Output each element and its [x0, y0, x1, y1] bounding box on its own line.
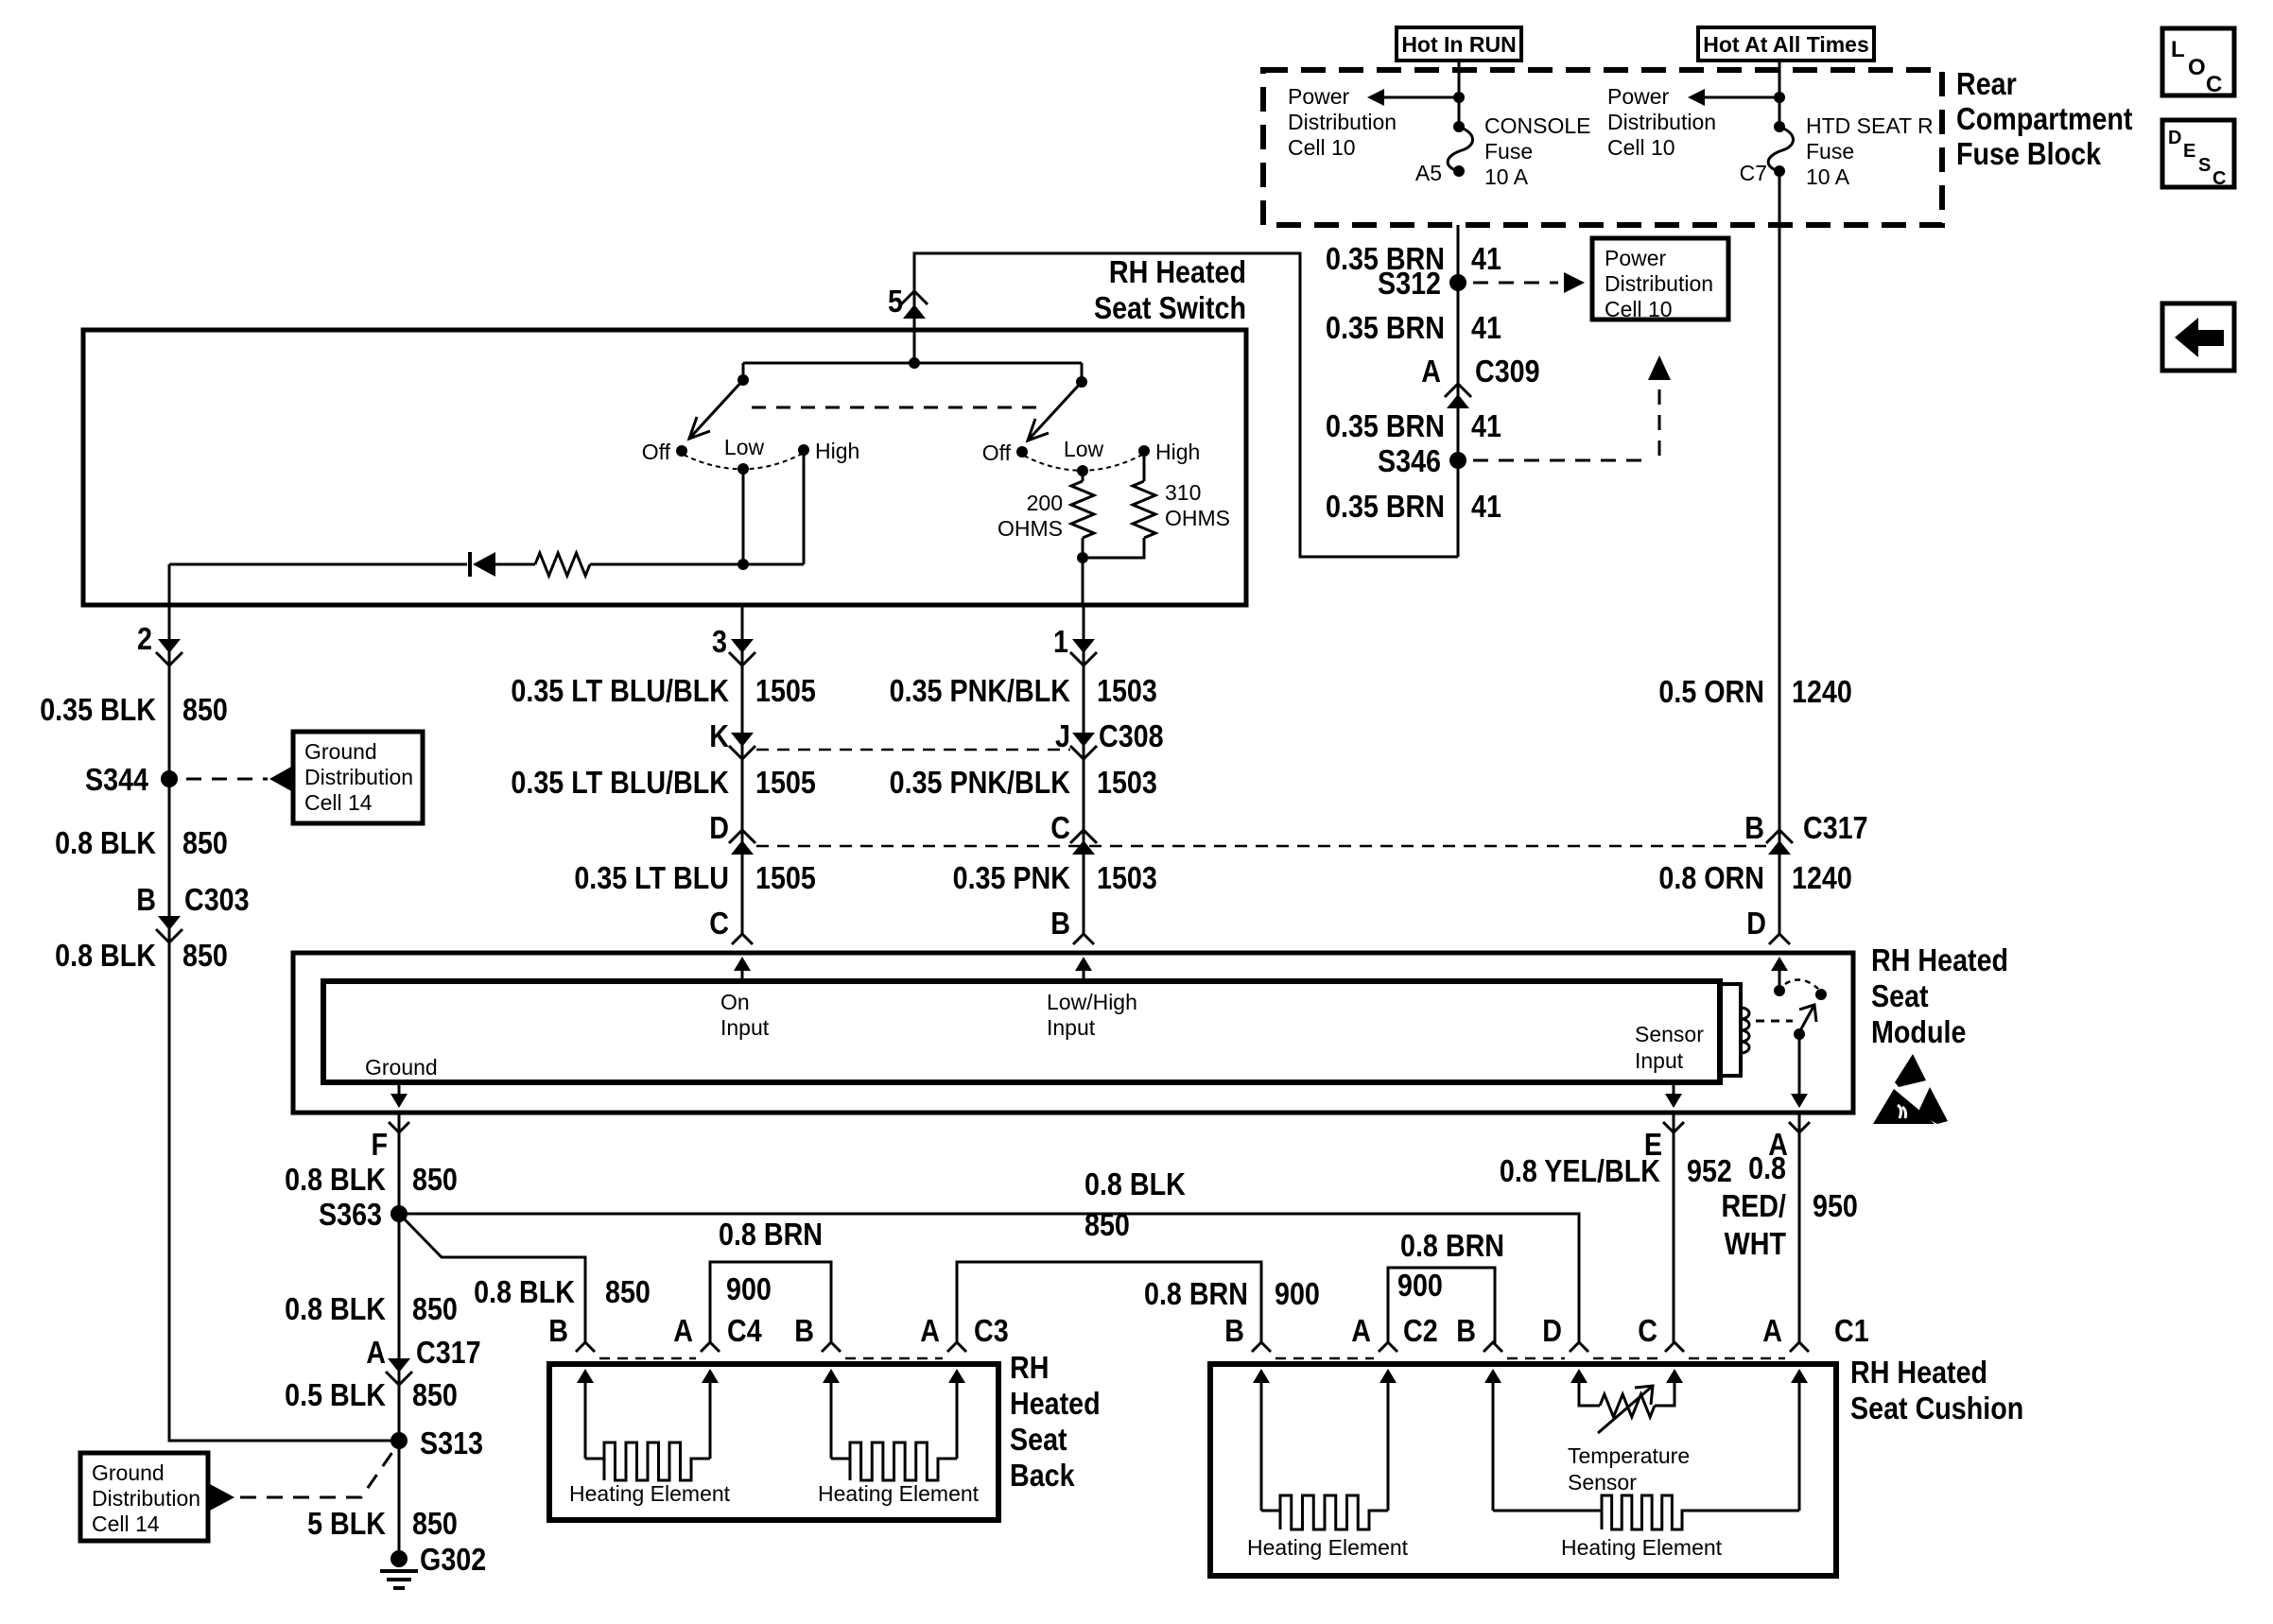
connector C2 pin B: [1224, 1313, 1271, 1352]
svg-text:41: 41: [1471, 408, 1501, 443]
svg-text:CONSOLE: CONSOLE: [1484, 113, 1590, 138]
svg-text:Fuse Block: Fuse Block: [1956, 136, 2102, 171]
ESD warning symbol: [1873, 1054, 1948, 1124]
text: 0.35 PNK 1503 (row3): [953, 860, 1157, 895]
text: 0.8 BRN 900 (bridge 3): [1397, 1228, 1504, 1303]
wire: power distribution arrow (right fuse): [1688, 89, 1779, 106]
svg-text:850: 850: [412, 1506, 458, 1541]
svg-text:850: 850: [412, 1291, 458, 1326]
svg-text:L: L: [2171, 37, 2185, 62]
svg-text:Cell 10: Cell 10: [1607, 135, 1675, 160]
node: switch pivot 1: [737, 374, 749, 386]
text: 0.8 BLK 850 (below S363): [285, 1291, 458, 1326]
svg-text:0.35 LT BLU/BLK: 0.35 LT BLU/BLK: [511, 673, 729, 708]
svg-text:C308: C308: [1099, 718, 1164, 753]
wire: switch feed rail: [743, 330, 1082, 382]
wire: pin 1 / PNK chain: [1083, 605, 1085, 934]
svg-text:0.8 BRN: 0.8 BRN: [1400, 1228, 1504, 1263]
svg-text:Distribution: Distribution: [1288, 110, 1397, 134]
svg-text:Ground: Ground: [304, 739, 377, 764]
svg-text:0.35 PNK: 0.35 PNK: [953, 860, 1071, 895]
connector: switch pin 5: [888, 284, 928, 319]
svg-text:41: 41: [1471, 241, 1501, 276]
svg-text:Module: Module: [1871, 1014, 1966, 1049]
svg-text:Heating Element: Heating Element: [1561, 1535, 1723, 1560]
text: 0.8 ORN 1240: [1658, 860, 1851, 895]
contact High (1): [798, 439, 859, 463]
svg-text:950: 950: [1813, 1188, 1858, 1223]
contact Off (1): [642, 440, 687, 464]
wire: 0.8 BLK 850 long ground bus: [399, 1214, 1579, 1343]
svg-text:Distribution: Distribution: [92, 1486, 200, 1511]
Rear Compartment Fuse Block dashed box: [1263, 70, 1942, 225]
wire: module ground to G302: [398, 1113, 401, 1559]
seat back arrow B(C4): [577, 1369, 594, 1390]
svg-text:41: 41: [1471, 310, 1501, 345]
node: junction pin 1: [1077, 552, 1088, 605]
svg-text:0.8 BRN: 0.8 BRN: [1144, 1276, 1248, 1311]
svg-text:RH Heated: RH Heated: [1109, 254, 1246, 289]
svg-text:Cell 14: Cell 14: [92, 1512, 160, 1536]
connector C317 pin B: [1744, 810, 1867, 855]
svg-text:0.35 PNK/BLK: 0.35 PNK/BLK: [890, 673, 1071, 708]
text: 0.35 BLK 850: [40, 692, 228, 727]
module input arrow: Low/High Input: [1075, 957, 1092, 981]
connector C317 pin A (ground): [366, 1335, 480, 1385]
svg-text:Ground: Ground: [365, 1055, 438, 1080]
label box: Hot At All Times: [1698, 27, 1874, 60]
svg-text:Seat: Seat: [1010, 1422, 1067, 1457]
svg-text:Seat Switch: Seat Switch: [1094, 290, 1246, 325]
label box: Hot In RUN: [1397, 27, 1521, 60]
contact High (2): [1138, 440, 1200, 464]
svg-text:C: C: [709, 906, 729, 941]
connector C317 pin D: [709, 810, 755, 855]
heating element (cushion left): [1261, 1390, 1388, 1529]
svg-text:Power: Power: [1607, 84, 1670, 109]
text: Heating Element (back right): [818, 1481, 980, 1506]
svg-text:Low: Low: [724, 435, 765, 459]
RH Heated Seat Cushion box: [1210, 1364, 1836, 1576]
svg-text:Low/High: Low/High: [1047, 990, 1137, 1014]
dashed mechanical link: [752, 406, 1041, 409]
svg-text:A: A: [920, 1313, 940, 1348]
cushion arrow C(C1): [1666, 1369, 1683, 1390]
connector C308 pin J: [1055, 718, 1164, 759]
text: 0.8 YEL/BLK 952: [1500, 1153, 1732, 1188]
svg-text:D: D: [709, 810, 729, 845]
text: 0.8 BLK 850 (bus label): [1084, 1166, 1186, 1242]
svg-text:900: 900: [726, 1271, 772, 1306]
DESC reference box: [2162, 120, 2234, 189]
svg-text:0.8 BLK: 0.8 BLK: [55, 825, 156, 860]
title: RH Heated Seat Module: [1871, 942, 2008, 1049]
text: On Input: [720, 990, 770, 1040]
text: 0.35 LT BLU/BLK 1505 (row1): [511, 673, 815, 708]
svg-text:1: 1: [1053, 624, 1068, 659]
module ground arrow: [390, 1082, 408, 1108]
svg-text:S344: S344: [85, 762, 149, 797]
connector: module pin F: [371, 1122, 409, 1162]
RH Heated Seat Module inner box: [323, 981, 1720, 1082]
node: junction at HTD SEAT R fuse top: [1774, 92, 1785, 103]
svg-text:On: On: [720, 990, 750, 1014]
svg-text:High: High: [815, 439, 859, 463]
wire: ORN feed chain: [1778, 171, 1781, 934]
connector C1 pin C: [1638, 1313, 1684, 1352]
connector C1 pin B: [1456, 1313, 1502, 1352]
svg-text:C303: C303: [184, 882, 250, 917]
dashed reference arrow to S313: [210, 1448, 395, 1511]
svg-text:Input: Input: [1635, 1048, 1684, 1073]
svg-text:Fuse: Fuse: [1806, 139, 1854, 164]
svg-text:5: 5: [888, 284, 903, 319]
fuse HTD SEAT R 10A: [1768, 121, 1793, 177]
svg-text:C: C: [1638, 1313, 1657, 1348]
svg-text:Distribution: Distribution: [1605, 271, 1713, 296]
svg-text:OHMS: OHMS: [1165, 506, 1230, 530]
svg-text:S313: S313: [420, 1425, 483, 1460]
connector C4 pin B: [548, 1313, 595, 1352]
wire: pin 2 branch with diode and resistor: [169, 564, 743, 605]
dashed reference arrow from S312: [1473, 272, 1585, 293]
svg-text:1505: 1505: [755, 673, 816, 708]
wire: Low contact 1 drop: [742, 469, 745, 564]
svg-text:Heating Element: Heating Element: [569, 1481, 731, 1506]
svg-text:Cell 10: Cell 10: [1605, 297, 1673, 321]
dashed link coil to switch: [1756, 1020, 1793, 1023]
title: RH Heated Seat Cushion: [1850, 1355, 2023, 1425]
wire: 0.8 BRN 900 bridge C3A-C2B: [957, 1262, 1261, 1343]
svg-text:S363: S363: [319, 1197, 382, 1232]
splice S363: [319, 1197, 408, 1232]
svg-text:K: K: [709, 718, 729, 753]
text: Power Distribution Cell 10 (right): [1607, 84, 1716, 160]
splice S313: [390, 1425, 483, 1460]
svg-text:850: 850: [412, 1162, 458, 1197]
svg-text:S: S: [2198, 155, 2211, 176]
text: CONSOLE Fuse 10 A: [1484, 113, 1590, 189]
svg-text:B: B: [136, 882, 156, 917]
node: junction pin 3: [737, 559, 749, 570]
svg-text:10 A: 10 A: [1806, 164, 1850, 189]
svg-text:B: B: [1744, 810, 1764, 845]
dashed wiper arc (2): [1024, 455, 1142, 471]
text: 0.35 BRN 41 (3): [1326, 408, 1501, 443]
back-arrow box: [2162, 303, 2234, 371]
resistor 310 OHMS: [1088, 451, 1155, 558]
connector: module pin A: [1768, 1122, 1810, 1162]
svg-text:1503: 1503: [1097, 860, 1157, 895]
dashed line C3: [845, 1357, 943, 1360]
text: Sensor Input: [1635, 1022, 1704, 1073]
Power Distribution Cell 10 reference box: [1592, 238, 1728, 321]
resistor (switch illumination): [535, 553, 590, 576]
svg-text:RH: RH: [1010, 1350, 1049, 1385]
splice S346: [1378, 443, 1466, 478]
text: 0.35 LT BLU 1505 (row3): [574, 860, 815, 895]
title: RH Heated Seat Switch: [1094, 254, 1246, 325]
svg-text:HTD SEAT R: HTD SEAT R: [1806, 113, 1934, 138]
heating element (cushion right): [1493, 1390, 1799, 1529]
svg-text:C317: C317: [1803, 810, 1868, 845]
svg-text:850: 850: [182, 938, 228, 973]
svg-text:A: A: [366, 1335, 386, 1370]
svg-text:0.8 YEL/BLK: 0.8 YEL/BLK: [1500, 1153, 1661, 1188]
contact Off (2): [982, 441, 1028, 465]
connector: switch pin 3: [712, 624, 755, 665]
svg-text:C: C: [1050, 810, 1070, 845]
wire: 0.8 BRN 900 bridge C4A-C3B: [710, 1262, 831, 1343]
dashed line C2: [1275, 1357, 1374, 1360]
switch lever 2: [1028, 382, 1082, 441]
svg-text:A: A: [673, 1313, 693, 1348]
dashed connector line C317: [756, 845, 1766, 848]
connector: module pin B (Low/High Input): [1050, 906, 1094, 944]
svg-text:B: B: [1224, 1313, 1244, 1348]
dashed line C1: [1507, 1357, 1785, 1360]
cushion arrow B(C1): [1484, 1369, 1501, 1390]
svg-text:Heating Element: Heating Element: [818, 1481, 980, 1506]
text: 0.35 PNK/BLK 1503 (row2): [890, 765, 1157, 800]
module input arrow: On Input: [734, 957, 751, 981]
title: Rear Compartment Fuse Block: [1956, 66, 2132, 171]
svg-text:Off: Off: [642, 440, 671, 464]
svg-text:Heated: Heated: [1010, 1386, 1101, 1421]
svg-text:WHT: WHT: [1725, 1226, 1786, 1261]
svg-text:S346: S346: [1378, 443, 1441, 478]
text: 0.5 ORN 1240: [1658, 674, 1851, 709]
svg-text:0.8 BLK: 0.8 BLK: [1084, 1166, 1186, 1201]
connector: module pin D: [1746, 906, 1790, 944]
svg-text:1505: 1505: [755, 765, 816, 800]
ground G302: [380, 1542, 486, 1588]
svg-text:B: B: [1456, 1313, 1476, 1348]
module internal switch: [1774, 980, 1827, 1040]
text: HTD SEAT R Fuse 10 A: [1806, 113, 1934, 189]
svg-text:850: 850: [1084, 1207, 1130, 1242]
connector C308 pin K: [709, 718, 755, 759]
svg-text:O: O: [2188, 55, 2206, 80]
wire: 0.8 RED/WHT 950: [1798, 1113, 1801, 1343]
svg-text:0.5 ORN: 0.5 ORN: [1658, 674, 1764, 709]
temperature sensor: [1579, 1386, 1674, 1433]
text: 0.8 BRN 900 (bridge 1): [719, 1217, 823, 1306]
svg-text:S312: S312: [1378, 266, 1441, 301]
resistor 200 OHMS: [1071, 471, 1094, 558]
svg-text:952: 952: [1687, 1153, 1732, 1188]
text: Heating Element (cushion right): [1561, 1535, 1723, 1560]
svg-text:D: D: [2168, 128, 2181, 148]
wire: power distribution arrow (left fuse): [1367, 89, 1459, 106]
connector C4 pin A: [673, 1313, 762, 1352]
svg-text:Low: Low: [1064, 437, 1104, 461]
svg-text:0.8 BLK: 0.8 BLK: [474, 1274, 575, 1309]
svg-text:D: D: [1746, 906, 1766, 941]
text: 950: [1813, 1188, 1858, 1223]
svg-text:1240: 1240: [1792, 674, 1852, 709]
svg-text:2: 2: [137, 621, 152, 656]
svg-text:Fuse: Fuse: [1484, 139, 1533, 164]
svg-text:F: F: [371, 1127, 388, 1162]
svg-text:5 BLK: 5 BLK: [307, 1506, 387, 1541]
svg-text:A: A: [1351, 1313, 1371, 1348]
svg-text:0.35 BRN: 0.35 BRN: [1326, 310, 1445, 345]
text: Heating Element (cushion left): [1247, 1535, 1409, 1560]
svg-text:0.8 BLK: 0.8 BLK: [55, 938, 156, 973]
svg-text:C: C: [2212, 168, 2226, 189]
wire: Hot In RUN feed: [1458, 60, 1461, 127]
wire: 0.8 BRN 900 bridge C2A-C1B: [1388, 1268, 1495, 1343]
connector: switch pin 1: [1053, 624, 1097, 665]
connector C3 pin B: [794, 1313, 841, 1352]
svg-text:RH Heated: RH Heated: [1871, 942, 2008, 977]
svg-text:0.35 LT BLU: 0.35 LT BLU: [574, 860, 729, 895]
svg-text:Hot At All Times: Hot At All Times: [1703, 32, 1869, 57]
svg-text:C3: C3: [974, 1313, 1009, 1348]
connector: switch pin 2: [137, 621, 182, 665]
svg-text:A: A: [1421, 354, 1441, 389]
connector C303 pin B: [136, 882, 249, 942]
svg-text:C317: C317: [416, 1335, 481, 1370]
heating element (back right): [831, 1390, 957, 1480]
svg-text:RED/: RED/: [1721, 1188, 1786, 1223]
connector: module pin C (On Input): [709, 906, 753, 944]
module input arrow + wire: sensor feed D: [1771, 957, 1788, 991]
svg-text:0.35 BRN: 0.35 BRN: [1326, 408, 1445, 443]
cushion arrow A(C2): [1379, 1369, 1397, 1390]
switch lever 1: [689, 380, 743, 439]
svg-text:0.8: 0.8: [1748, 1150, 1786, 1185]
svg-text:Cell 10: Cell 10: [1288, 135, 1356, 160]
svg-text:Power: Power: [1288, 84, 1350, 109]
fuse CONSOLE 10A: [1448, 121, 1472, 177]
svg-text:850: 850: [412, 1377, 458, 1412]
svg-text:10 A: 10 A: [1484, 164, 1529, 189]
wire: Hot At All Times feed: [1778, 60, 1781, 127]
svg-text:0.35 BRN: 0.35 BRN: [1326, 489, 1445, 524]
text: 0.5 BLK 850: [285, 1377, 458, 1412]
text: 0.8 BRN 900 (bridge 2): [1144, 1276, 1320, 1311]
text: 0.8 BLK 850 (seat back branch): [474, 1274, 651, 1309]
svg-text:C7: C7: [1740, 161, 1767, 185]
cushion arrow A(C1): [1791, 1369, 1808, 1390]
text: 200 OHMS: [998, 491, 1063, 541]
wire: High contact 1 drop: [743, 450, 804, 564]
cushion arrow D(C1): [1570, 1369, 1588, 1390]
text: 0.35 BRN 41 (1): [1326, 241, 1501, 276]
diode: [470, 552, 495, 577]
module switch output arrow A: [1791, 1034, 1808, 1108]
svg-text:B: B: [1050, 906, 1070, 941]
text: Ground: [365, 1055, 438, 1080]
svg-text:1240: 1240: [1792, 860, 1852, 895]
svg-text:850: 850: [182, 692, 228, 727]
svg-text:Seat: Seat: [1871, 978, 1929, 1013]
module sensor output arrow E: [1665, 1082, 1682, 1108]
svg-text:High: High: [1155, 440, 1200, 464]
svg-text:Sensor: Sensor: [1635, 1022, 1704, 1046]
svg-text:B: B: [548, 1313, 568, 1348]
svg-text:Rear: Rear: [1956, 66, 2017, 101]
svg-text:Distribution: Distribution: [1607, 110, 1716, 134]
title: RH Heated Seat Back: [1010, 1350, 1101, 1493]
heating element (back left): [585, 1390, 710, 1480]
contact Low (1): [724, 435, 765, 475]
svg-text:Seat Cushion: Seat Cushion: [1850, 1391, 2023, 1425]
splice S344: [85, 762, 178, 797]
wire: 0.35 BRN 41 chain: [1457, 225, 1460, 557]
wire: pin 3 / LT BLU chain: [741, 605, 744, 934]
svg-text:C1: C1: [1834, 1313, 1869, 1348]
RH Heated Seat Back box: [549, 1364, 998, 1520]
LOC reference box: [2162, 28, 2234, 97]
sensor tab: [1720, 984, 1741, 1076]
node: junction at CONSOLE fuse top: [1453, 92, 1465, 103]
svg-text:Input: Input: [720, 1015, 770, 1040]
text: 5 BLK 850: [307, 1506, 458, 1541]
svg-text:Back: Back: [1010, 1458, 1075, 1493]
connector C3 pin A: [920, 1313, 1008, 1352]
connector: module pin E: [1644, 1122, 1684, 1162]
seat back arrow A(C4): [702, 1369, 719, 1390]
svg-text:C4: C4: [727, 1313, 762, 1348]
svg-text:Hot In RUN: Hot In RUN: [1401, 32, 1516, 57]
wire: BRN chain to switch pin 5: [914, 253, 1458, 557]
svg-text:Heating Element: Heating Element: [1247, 1535, 1409, 1560]
svg-text:850: 850: [182, 825, 228, 860]
Ground Distribution Cell 14 box (upper): [293, 732, 423, 823]
svg-text:200: 200: [1027, 491, 1063, 515]
svg-text:C309: C309: [1475, 354, 1540, 389]
text: 0.8 BLK 850 (left upper): [55, 825, 228, 860]
svg-text:0.35 BLK: 0.35 BLK: [40, 692, 156, 727]
RH Heated Seat Switch box: [83, 330, 1246, 605]
svg-text:Input: Input: [1047, 1015, 1096, 1040]
connector C309 pin A: [1421, 354, 1539, 408]
connector C1 pin D: [1542, 1313, 1588, 1352]
text: 0.35 PNK/BLK 1503 (row1): [890, 673, 1157, 708]
svg-text:A5: A5: [1415, 161, 1442, 185]
wire: pin 2 ground chain: [169, 605, 399, 1441]
RH Heated Seat Module outer box: [293, 953, 1853, 1113]
svg-text:0.35 LT BLU/BLK: 0.35 LT BLU/BLK: [511, 765, 729, 800]
svg-text:0.5 BLK: 0.5 BLK: [285, 1377, 386, 1412]
splice S312: [1378, 266, 1466, 301]
svg-text:310: 310: [1165, 480, 1201, 505]
text: 0.35 BRN 41 (2): [1326, 310, 1501, 345]
seat back arrow B(C3): [823, 1369, 840, 1390]
svg-text:Sensor: Sensor: [1568, 1470, 1637, 1494]
svg-text:E: E: [2183, 141, 2195, 162]
text: 0.35 BRN 41 (4): [1326, 489, 1501, 524]
svg-text:Ground: Ground: [92, 1460, 165, 1485]
svg-text:900: 900: [1397, 1268, 1443, 1303]
text: 0.8 RED/WHT: [1721, 1150, 1786, 1261]
svg-text:0.8 ORN: 0.8 ORN: [1658, 860, 1764, 895]
text: 0.8 BLK 850 (left lower): [55, 938, 228, 973]
wire: 0.8 YEL/BLK 952: [1673, 1113, 1675, 1343]
svg-text:Compartment: Compartment: [1956, 101, 2132, 136]
svg-text:RH Heated: RH Heated: [1850, 1355, 1987, 1390]
text: 310 OHMS: [1165, 480, 1230, 530]
svg-text:3: 3: [712, 624, 727, 659]
text: Heating Element (back left): [569, 1481, 731, 1506]
svg-text:C2: C2: [1403, 1313, 1438, 1348]
dashed reference arrow from S344: [186, 766, 293, 792]
dashed connector line C308: [756, 749, 1070, 752]
svg-text:1505: 1505: [755, 860, 816, 895]
